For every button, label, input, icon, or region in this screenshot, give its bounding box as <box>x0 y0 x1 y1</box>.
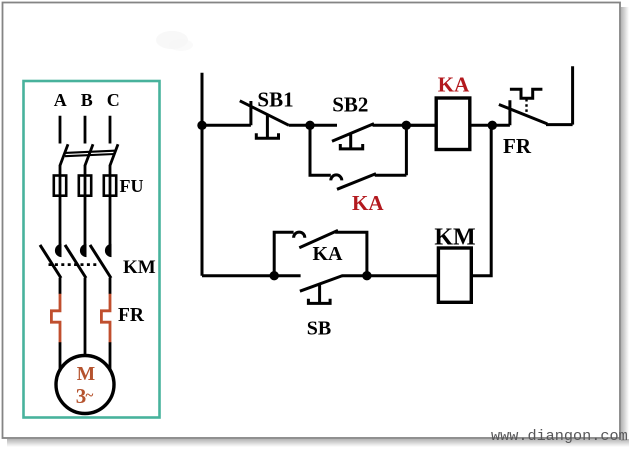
svg-text:A: A <box>54 90 67 110</box>
svg-text:M: M <box>77 364 95 385</box>
svg-text:KA: KA <box>352 191 384 215</box>
svg-text:KA: KA <box>438 73 470 97</box>
svg-text:SB2: SB2 <box>332 93 368 117</box>
svg-text:~: ~ <box>86 388 94 404</box>
svg-text:B: B <box>81 90 93 110</box>
svg-text:www.diangon.com: www.diangon.com <box>491 427 628 445</box>
svg-text:SB: SB <box>307 318 331 340</box>
svg-text:FR: FR <box>118 305 145 326</box>
svg-text:KM: KM <box>434 225 475 251</box>
svg-text:FR: FR <box>503 134 532 158</box>
svg-text:FU: FU <box>120 176 144 196</box>
svg-text:C: C <box>107 90 120 110</box>
svg-text:SB1: SB1 <box>257 88 293 112</box>
svg-text:KM: KM <box>123 257 156 278</box>
svg-text:KA: KA <box>313 243 344 265</box>
